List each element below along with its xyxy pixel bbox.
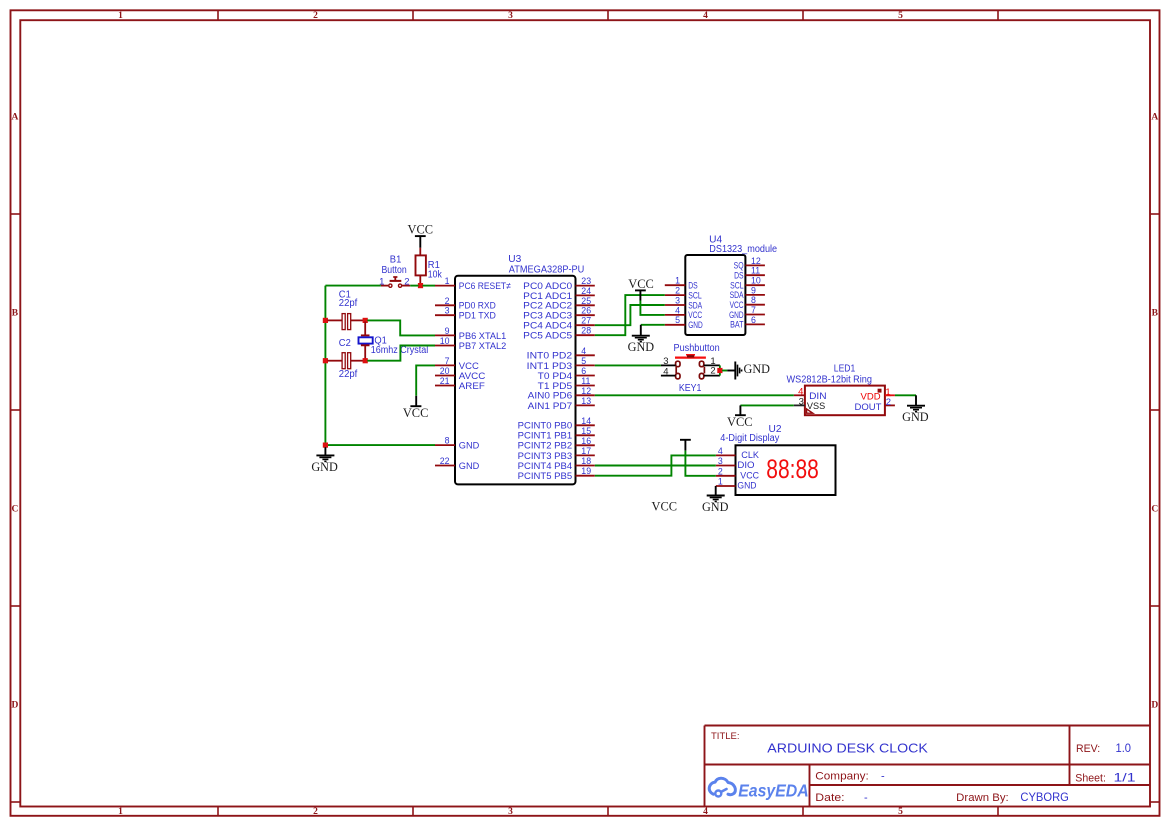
op-amp U3 body (ATMEGA328P-PU MCU) — [455, 276, 576, 485]
svg-text:22: 22 — [440, 456, 450, 466]
svg-text:3: 3 — [675, 295, 680, 305]
svg-text:PB7 XTAL2: PB7 XTAL2 — [459, 341, 507, 352]
svg-text:B1: B1 — [390, 254, 402, 265]
svg-text:1: 1 — [675, 276, 680, 286]
U3 pin 8 GND — [435, 436, 479, 452]
svg-text:A: A — [11, 112, 18, 122]
svg-text:B: B — [1152, 308, 1159, 318]
U3 pin 23 PC0 ADC0 — [523, 276, 595, 292]
svg-text:ATMEGA328P-PU: ATMEGA328P-PU — [509, 264, 585, 275]
svg-text:C: C — [11, 504, 18, 514]
svg-text:SDA: SDA — [688, 300, 702, 310]
U4 pin 10 SCL — [730, 276, 765, 291]
svg-text:C: C — [1151, 504, 1158, 514]
U3 pin 1 PC6 RESET≠ — [435, 276, 511, 292]
svg-text:3: 3 — [663, 356, 668, 367]
wire LED1 VSS to VCC flag — [740, 404, 793, 406]
U4 pin 2 SCL — [665, 286, 702, 301]
svg-text:KEY1: KEY1 — [679, 383, 702, 394]
U4 pin 3 SDA — [665, 295, 702, 310]
LED1 pin 4 DIN — [794, 387, 827, 403]
svg-text:WS2812B-12bit Ring: WS2812B-12bit Ring — [787, 375, 873, 386]
svg-text:Pushbutton: Pushbutton — [674, 343, 720, 354]
svg-text:10: 10 — [751, 276, 761, 286]
svg-text:1: 1 — [118, 11, 123, 21]
svg-text:18: 18 — [581, 456, 591, 466]
svg-text:GND: GND — [628, 340, 655, 354]
ground flag (LED1) — [902, 395, 929, 424]
svg-text:1: 1 — [718, 477, 723, 487]
svg-text:14: 14 — [581, 416, 591, 426]
U3 pin 19 PCINT5 PB5 — [518, 466, 595, 482]
U3 pin 2 PD0 RXD — [435, 296, 496, 312]
svg-text:GND: GND — [459, 441, 480, 452]
EasyEDA logo — [709, 778, 808, 800]
svg-text:15: 15 — [581, 426, 591, 436]
svg-text:12: 12 — [581, 386, 591, 396]
ground flag (KEY1, rotated) — [727, 362, 770, 380]
svg-text:16: 16 — [581, 436, 591, 446]
junction (KEY1 pins 1-2 to GND) — [717, 368, 722, 373]
svg-text:13: 13 — [581, 396, 591, 406]
svg-text:3: 3 — [718, 456, 723, 466]
svg-text:VCC: VCC — [730, 300, 744, 310]
ground flag (U4) — [628, 325, 655, 354]
svg-text:20: 20 — [440, 366, 450, 376]
svg-text:9: 9 — [445, 326, 450, 336]
svg-text:C2: C2 — [339, 338, 351, 349]
wire crystal top to U3 pin9 XTAL1 — [367, 320, 435, 335]
U3 pin 17 PCINT3 PB3 — [518, 446, 595, 462]
wire crystal bottom to U3 pin10 XTAL2 — [367, 346, 435, 361]
svg-text:1/1: 1/1 — [1114, 771, 1136, 785]
power flag VCC (U2) — [680, 440, 691, 451]
U3 pin 27 PC4 ADC4 — [523, 316, 595, 332]
svg-text:GND: GND — [459, 461, 480, 472]
wire U3 pin19 PB5 to U2 CLK — [595, 455, 716, 475]
svg-text:25: 25 — [581, 296, 591, 306]
U3 pin 26 PC3 ADC3 — [523, 306, 595, 322]
wire VCC flag to U2 VCC pin2 — [685, 451, 715, 476]
U3 pin 20 AVCC — [435, 366, 485, 382]
svg-text:4-Digit Display: 4-Digit Display — [720, 433, 779, 444]
svg-text:VSS: VSS — [807, 401, 825, 412]
wire U3 pin18 PB4 to U2 DIO — [595, 465, 716, 467]
svg-text:DOUT: DOUT — [854, 402, 881, 413]
U3 pin 18 PCINT4 PB4 — [518, 456, 595, 472]
svg-text:GND: GND — [311, 460, 338, 474]
svg-text:PD1 TXD: PD1 TXD — [459, 311, 496, 322]
svg-text:4: 4 — [663, 367, 668, 378]
svg-text:1: 1 — [445, 276, 450, 286]
svg-text:CYBORG: CYBORG — [1020, 790, 1069, 804]
junction (R1 / B1 / U3 pin1) — [418, 283, 423, 288]
svg-text:4: 4 — [581, 346, 586, 356]
wire U3 pin7 VCC to VCC flag — [416, 365, 435, 395]
svg-text:26: 26 — [581, 306, 591, 316]
U3 pin 7 VCC — [435, 356, 479, 372]
svg-text:GND: GND — [729, 310, 744, 320]
svg-text:REV:: REV: — [1076, 743, 1100, 755]
U2 pin 2 VCC — [716, 466, 760, 480]
svg-text:2: 2 — [445, 296, 450, 306]
svg-text:8: 8 — [445, 436, 450, 446]
U3 pin 12 AIN0 PD6 — [528, 386, 595, 402]
svg-text:Sheet:: Sheet: — [1075, 772, 1106, 784]
title block — [705, 726, 1151, 807]
svg-text:D: D — [11, 700, 18, 710]
U4 pin 8 VCC — [730, 295, 765, 310]
U3 pin 10 PB7 XTAL2 — [435, 336, 506, 352]
svg-text:3: 3 — [508, 11, 513, 21]
junction (C1 right / crystal top) — [363, 318, 368, 323]
svg-text:4: 4 — [675, 305, 680, 315]
svg-text:SQ: SQ — [734, 261, 744, 271]
svg-text:AREF: AREF — [459, 381, 485, 392]
svg-text:Date:: Date: — [815, 792, 844, 804]
U4 pin 9 SDA — [730, 285, 765, 300]
U3 pin 9 PB6 XTAL1 — [435, 326, 506, 342]
U4 pin 4 VCC — [665, 305, 703, 320]
svg-text:DS: DS — [688, 281, 698, 291]
svg-text:6: 6 — [581, 366, 586, 376]
svg-text:2: 2 — [313, 11, 318, 21]
svg-text:BAT: BAT — [730, 320, 744, 330]
svg-text:4: 4 — [703, 11, 708, 21]
pushbutton KEY1 — [661, 354, 720, 379]
svg-text:2: 2 — [710, 366, 715, 377]
svg-text:A: A — [1151, 112, 1158, 122]
wire KEY1 junction to ground flag — [722, 370, 727, 372]
svg-text:3: 3 — [508, 807, 513, 817]
button B1 — [381, 277, 410, 287]
junction (C2 right / crystal bottom) — [363, 358, 368, 363]
svg-text:VCC: VCC — [628, 277, 654, 291]
crystal Q1 — [359, 322, 373, 360]
U3 pin 25 PC2 ADC2 — [523, 296, 595, 312]
wire LED1 VDD to ground flag — [895, 394, 916, 396]
U3 pin 14 PCINT0 PB0 — [518, 416, 595, 432]
svg-text:VCC: VCC — [740, 470, 759, 480]
svg-text:-: - — [864, 792, 868, 804]
wire U2 GND pin1 to ground flag — [715, 486, 717, 495]
U3 pin 6 T0 PD4 — [538, 366, 595, 382]
svg-text:EasyEDA: EasyEDA — [738, 780, 809, 800]
junction (rail / C2 left) — [323, 358, 328, 363]
svg-text:24: 24 — [581, 286, 591, 296]
svg-text:8: 8 — [751, 295, 756, 305]
svg-text:CLK: CLK — [741, 450, 759, 460]
wire U4 GND pin5 to ground flag — [641, 324, 665, 326]
svg-text:GND: GND — [702, 500, 729, 514]
wire VCC flag to U4 VCC pin4 — [640, 301, 664, 315]
svg-text:11: 11 — [751, 266, 760, 276]
LED1 pin 1 VDD — [861, 387, 895, 403]
wire U3 pin27 PC4 to U4 SDA — [595, 305, 665, 325]
svg-text:12: 12 — [751, 256, 761, 266]
power flag VCC (below U3) — [403, 396, 429, 420]
capacitor C1 — [328, 314, 364, 330]
wire U3 pin28 PC5 to U4 SCL — [595, 295, 665, 335]
svg-text:Drawn By:: Drawn By: — [956, 792, 1009, 804]
svg-text:DIO: DIO — [737, 460, 754, 470]
wire rail to U3 pin8 GND — [328, 444, 436, 446]
U4 pin 7 GND — [729, 305, 765, 320]
resistor R1 — [416, 248, 426, 284]
svg-text:17: 17 — [581, 446, 591, 456]
svg-text:GND: GND — [688, 320, 703, 330]
U4 pin 1 DS — [665, 276, 698, 291]
svg-text:2: 2 — [313, 807, 318, 817]
LED1 pin 3 VSS — [794, 397, 825, 412]
svg-text:27: 27 — [581, 316, 591, 326]
svg-text:Button: Button — [382, 265, 407, 276]
U3 pin 4 INT0 PD2 — [527, 346, 595, 362]
ground flag (bottom left) — [311, 447, 338, 474]
svg-text:ARDUINO DESK CLOCK: ARDUINO DESK CLOCK — [767, 741, 928, 756]
U3 pin 28 PC5 ADC5 — [523, 326, 595, 342]
svg-text:22pf: 22pf — [339, 369, 358, 380]
svg-text:10: 10 — [440, 336, 450, 346]
svg-text:PC6 RESET≠: PC6 RESET≠ — [459, 281, 511, 292]
LED1 pin 2 DOUT — [854, 397, 894, 413]
svg-text:23: 23 — [581, 276, 591, 286]
svg-text:21: 21 — [440, 376, 450, 386]
svg-text:7: 7 — [445, 356, 450, 366]
ground flag (U2) — [702, 496, 729, 515]
U2 pin 3 DIO — [716, 456, 755, 470]
svg-text:TITLE:: TITLE: — [711, 731, 740, 742]
svg-text:DS: DS — [734, 271, 744, 281]
wire junction to U3 pin1 — [423, 285, 436, 287]
U3 pin 22 GND — [435, 456, 479, 472]
junction (rail / C1 left) — [323, 318, 328, 323]
IC U2 body (4-Digit Display) — [736, 445, 836, 495]
svg-text:1.0: 1.0 — [1116, 743, 1132, 755]
svg-text:DS1323_module: DS1323_module — [709, 244, 777, 255]
wire B1 pin1 to left rail — [325, 285, 380, 287]
U3 pin 13 AIN1 PD7 — [528, 396, 595, 412]
svg-text:VCC: VCC — [727, 415, 753, 429]
U3 pin 11 T1 PD5 — [538, 376, 595, 392]
svg-text:AIN1 PD7: AIN1 PD7 — [528, 401, 573, 412]
svg-text:LED1: LED1 — [834, 364, 856, 375]
junction (rail / pin8 / GND flag) — [323, 443, 328, 448]
svg-text:PC5 ADC5: PC5 ADC5 — [523, 331, 572, 342]
wire B1 pin2 to junction — [410, 285, 418, 287]
power flag VCC (LED1 VSS, inverted) — [727, 405, 753, 429]
svg-text:2: 2 — [675, 286, 680, 296]
svg-text:2: 2 — [404, 276, 409, 287]
IC U4 body (DS1323 module) — [685, 255, 745, 335]
svg-text:22pf: 22pf — [339, 298, 358, 309]
svg-text:SDA: SDA — [730, 290, 744, 300]
svg-text:SCL: SCL — [688, 290, 702, 300]
svg-text:88:88: 88:88 — [766, 454, 819, 484]
svg-text:2: 2 — [886, 397, 891, 408]
power flag VCC (above R1) — [408, 223, 434, 248]
svg-text:VCC: VCC — [408, 223, 434, 237]
svg-text:5: 5 — [581, 356, 586, 366]
svg-text:B: B — [12, 308, 19, 318]
wire U3 pin5 INT1 to KEY1 pin3 — [595, 364, 661, 366]
svg-text:GND: GND — [902, 410, 929, 424]
svg-text:5: 5 — [898, 11, 903, 21]
svg-text:VCC: VCC — [652, 500, 678, 514]
U3 pin 24 PC1 ADC1 — [523, 286, 595, 302]
svg-text:2: 2 — [718, 466, 723, 476]
svg-text:D: D — [1151, 700, 1158, 710]
U2 pin 1 GND — [716, 477, 757, 491]
svg-text:Company:: Company: — [815, 770, 869, 782]
LED module LED1 body (WS2812B-12bit Ring) — [805, 386, 885, 416]
U3 pin 5 INT1 PD3 — [527, 356, 595, 372]
U3 pin 3 PD1 TXD — [435, 306, 496, 322]
wire KEY1 pin1 to pin2 — [719, 365, 721, 375]
svg-text:5: 5 — [675, 315, 680, 325]
svg-text:4: 4 — [703, 807, 708, 817]
svg-text:28: 28 — [581, 326, 591, 336]
U4 pin 12 SQ — [734, 256, 765, 271]
U4 pin 5 GND — [665, 315, 703, 330]
svg-text:5: 5 — [898, 807, 903, 817]
svg-text:3: 3 — [445, 306, 450, 316]
U4 pin 11 DS — [734, 266, 765, 281]
U3 pin 15 PCINT1 PB1 — [518, 426, 595, 442]
svg-text:7: 7 — [751, 305, 756, 315]
wire left vertical rail (GND net) — [324, 286, 326, 446]
U4 pin 6 BAT — [730, 315, 765, 330]
U3 pin 21 AREF — [435, 376, 485, 392]
svg-text:VCC: VCC — [688, 310, 702, 320]
svg-text:4: 4 — [718, 446, 723, 456]
svg-text:GND: GND — [744, 362, 771, 376]
svg-text:VCC: VCC — [403, 406, 429, 420]
svg-text:GND: GND — [737, 481, 757, 491]
U3 pin 16 PCINT2 PB2 — [518, 436, 595, 452]
power flag VCC (U4) — [628, 277, 654, 301]
svg-text:10k: 10k — [428, 270, 443, 281]
svg-text:PCINT5 PB5: PCINT5 PB5 — [518, 471, 573, 482]
svg-text:-: - — [881, 770, 885, 782]
svg-text:1: 1 — [118, 807, 123, 817]
svg-text:3: 3 — [799, 397, 804, 408]
svg-text:11: 11 — [581, 376, 590, 386]
svg-text:SCL: SCL — [730, 281, 744, 291]
capacitor C2 — [328, 353, 364, 369]
svg-text:19: 19 — [581, 466, 591, 476]
U2 pin 4 CLK — [716, 446, 759, 460]
svg-text:6: 6 — [751, 315, 756, 325]
wire U3 pin12 AIN0 to LED1 DIN — [595, 394, 794, 396]
svg-text:9: 9 — [751, 285, 756, 295]
